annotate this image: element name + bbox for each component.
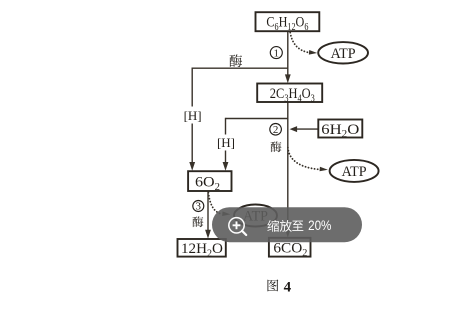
svg-text:4: 4	[284, 279, 292, 295]
svg-text:[H]: [H]	[184, 108, 202, 123]
svg-text:6H2​O: 6H2​O	[321, 122, 359, 140]
svg-text:6CO2​: 6CO2​	[273, 240, 307, 258]
svg-text:1: 1	[274, 47, 280, 59]
svg-text:20%: 20%	[308, 218, 331, 233]
svg-text:C6​H12​O6​: C6​H12​O6​	[266, 15, 308, 33]
svg-text:12H2​O: 12H2​O	[181, 241, 223, 259]
svg-text:ATP: ATP	[342, 164, 367, 180]
svg-text:2: 2	[273, 124, 279, 136]
svg-text:3: 3	[196, 201, 202, 213]
svg-text:ATP: ATP	[331, 46, 356, 62]
svg-text:2C3​H4​O3​: 2C3​H4​O3​	[270, 86, 315, 104]
svg-text:[H]: [H]	[217, 135, 235, 150]
